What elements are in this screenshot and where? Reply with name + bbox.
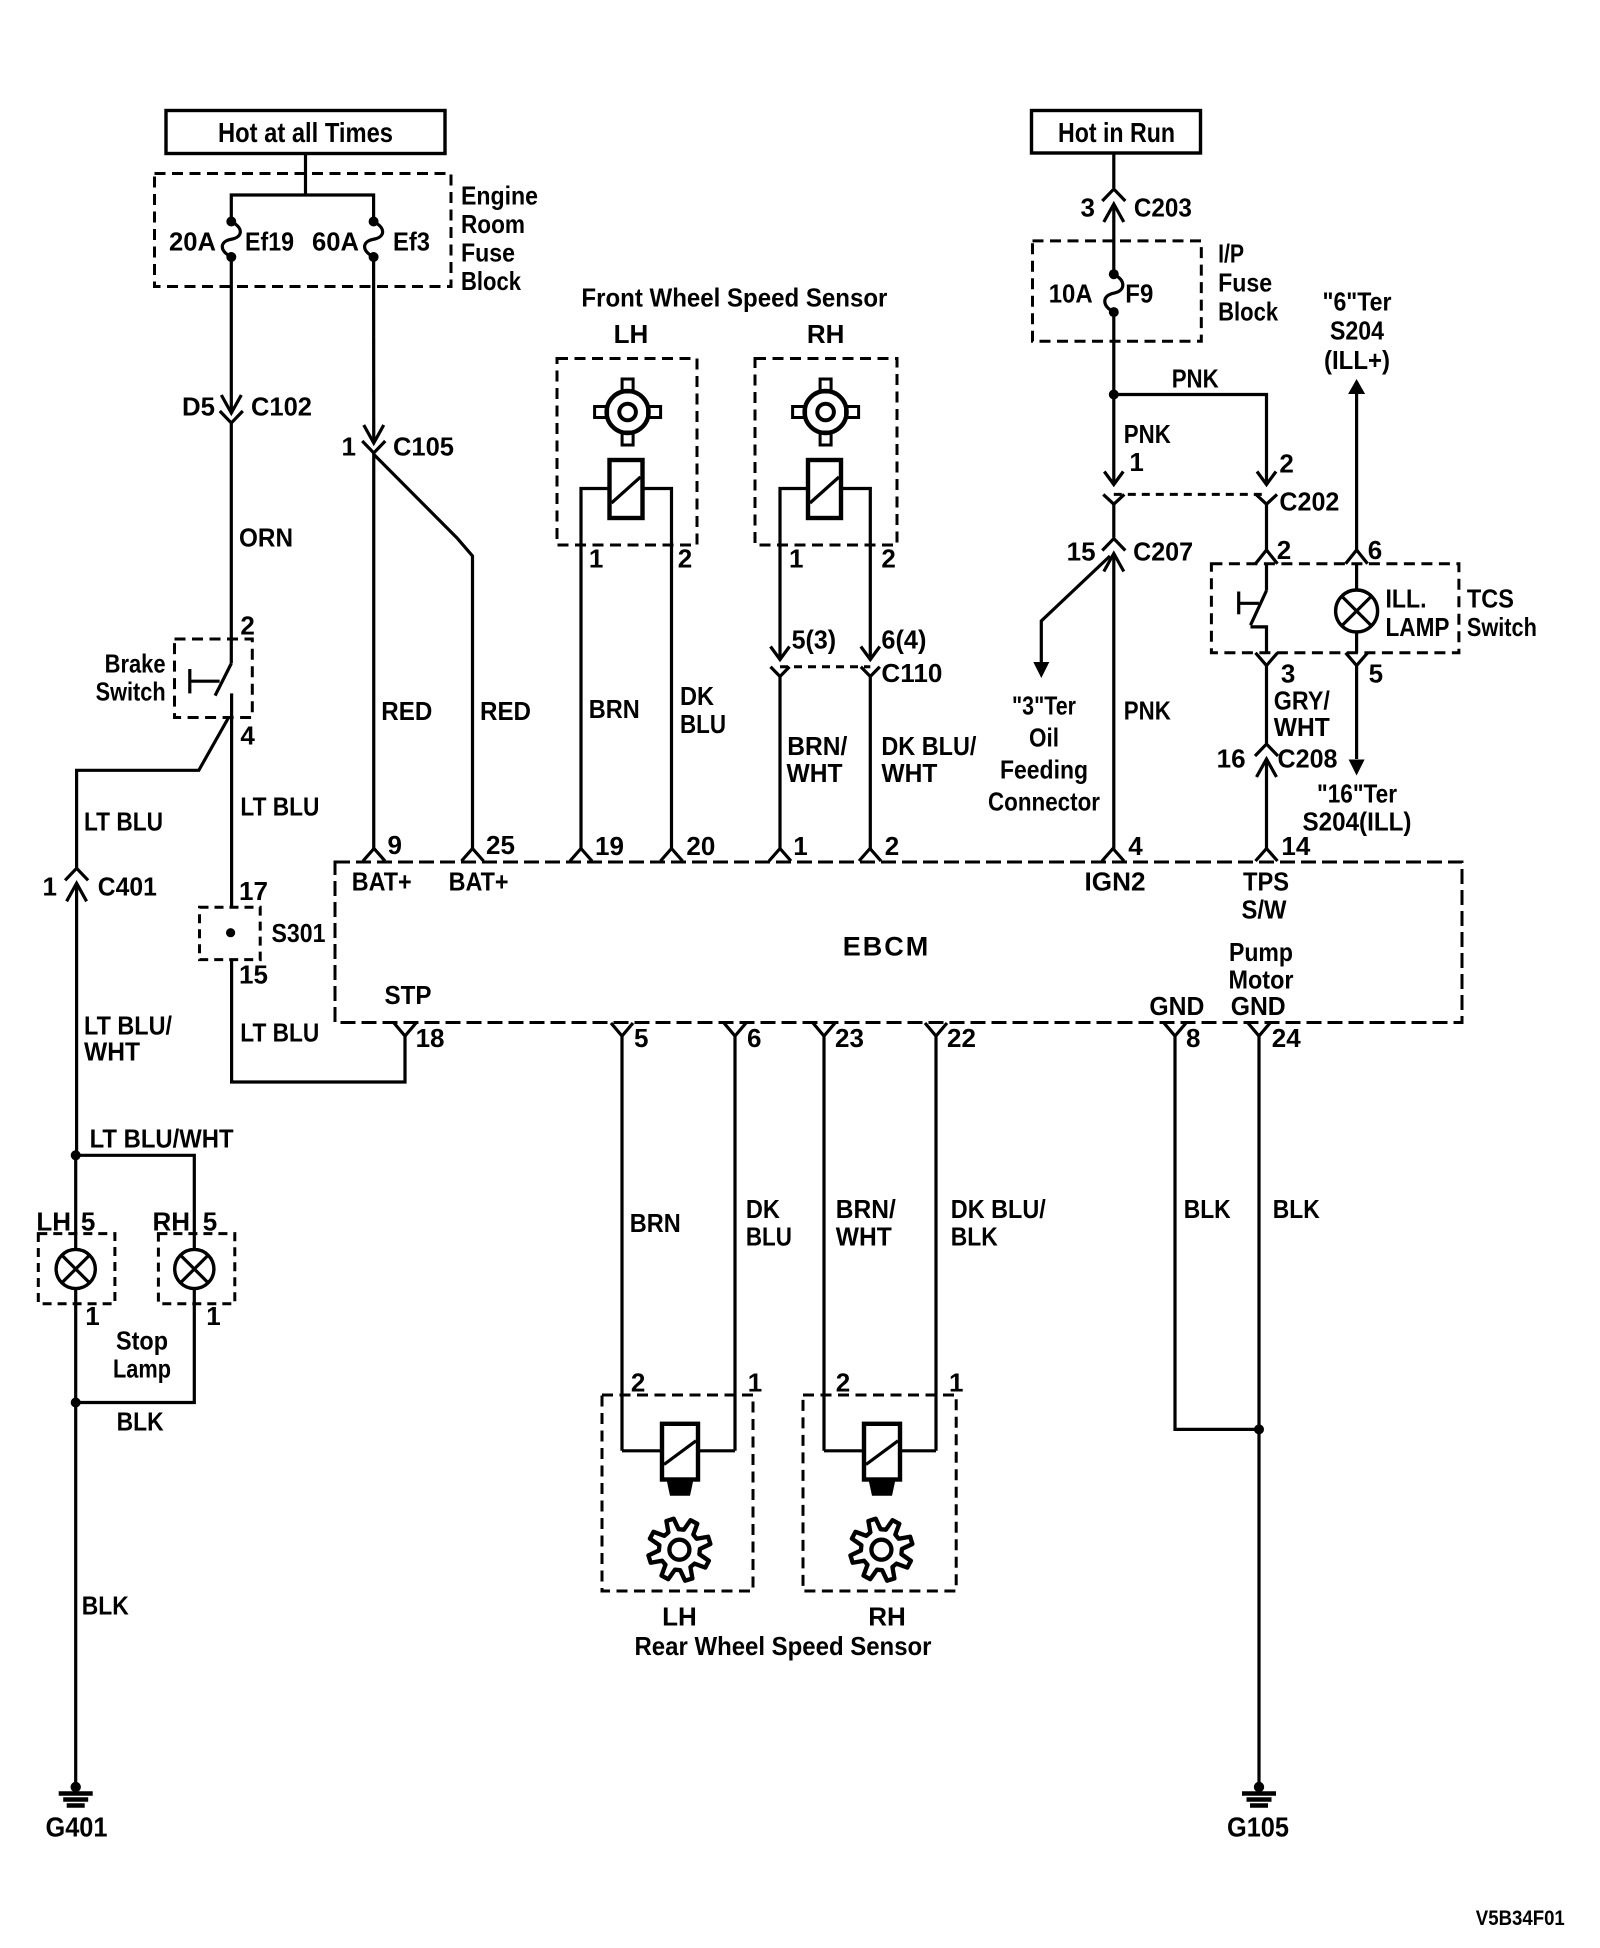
svg-text:5: 5 bbox=[1369, 658, 1383, 688]
svg-text:ILL.: ILL. bbox=[1386, 583, 1427, 613]
junction PNK bbox=[1109, 390, 1119, 400]
svg-text:1: 1 bbox=[793, 831, 807, 861]
svg-text:2: 2 bbox=[1279, 448, 1293, 478]
svg-text:Hot in Run: Hot in Run bbox=[1058, 117, 1175, 148]
svg-text:DK: DK bbox=[680, 681, 714, 711]
svg-text:Lamp: Lamp bbox=[113, 1353, 171, 1383]
svg-text:Room: Room bbox=[461, 209, 525, 239]
svg-text:19: 19 bbox=[595, 831, 624, 861]
svg-text:Fuse: Fuse bbox=[1218, 267, 1272, 297]
svg-text:2: 2 bbox=[678, 543, 692, 573]
svg-text:Block: Block bbox=[1218, 296, 1278, 326]
wire feed branch inside fuse block bbox=[231, 195, 373, 222]
svg-text:BRN/: BRN/ bbox=[787, 731, 847, 761]
svg-text:WHT: WHT bbox=[1274, 712, 1330, 742]
svg-text:3: 3 bbox=[1281, 658, 1295, 688]
svg-text:TPS: TPS bbox=[1243, 867, 1289, 897]
wire PNK from fuse F9 bbox=[1112, 312, 1115, 394]
connector C207 pin 15 bbox=[1067, 536, 1193, 571]
svg-text:1: 1 bbox=[949, 1367, 963, 1397]
EBCM pin 22 bbox=[925, 1023, 976, 1053]
wire ORN C102 to brake switch bbox=[231, 423, 293, 664]
svg-text:6: 6 bbox=[1368, 535, 1382, 565]
svg-text:C102: C102 bbox=[251, 391, 312, 421]
svg-text:4: 4 bbox=[240, 720, 255, 750]
wire stop lamp RH to junction bbox=[76, 1289, 195, 1403]
EBCM pin 18 STP bbox=[394, 1023, 445, 1053]
EBCM pin 5 bbox=[611, 1023, 648, 1053]
fuse Ef19 20A bbox=[169, 217, 359, 263]
svg-text:6: 6 bbox=[747, 1023, 761, 1053]
svg-text:17: 17 bbox=[239, 876, 268, 906]
ILL. LAMP bulb bbox=[1336, 564, 1450, 653]
svg-text:WHT: WHT bbox=[881, 758, 937, 788]
front wheel speed sensor RH (dashed box) bbox=[755, 359, 897, 546]
svg-text:LH: LH bbox=[662, 1602, 697, 1632]
power tag "Hot in Run" bbox=[1032, 111, 1201, 154]
svg-text:LT BLU: LT BLU bbox=[240, 791, 319, 821]
svg-text:D5: D5 bbox=[182, 391, 215, 421]
power tag "Hot at all Times" bbox=[166, 111, 445, 154]
svg-text:(ILL+): (ILL+) bbox=[1324, 345, 1390, 375]
svg-text:BLK: BLK bbox=[82, 1590, 129, 1620]
svg-text:BLK: BLK bbox=[1273, 1194, 1320, 1224]
wire C202 to C207 bbox=[1112, 504, 1115, 537]
stop lamp RH bbox=[152, 1206, 234, 1330]
svg-text:LT BLU: LT BLU bbox=[240, 1017, 319, 1047]
svg-text:F9: F9 bbox=[1125, 278, 1153, 308]
wire LT BLU brake switch to S301 bbox=[232, 693, 320, 907]
wire C208 to EBCM pin 14 bbox=[1265, 759, 1268, 849]
label TCS Switch bbox=[1467, 583, 1537, 642]
wire fuse Ef19 to C102 bbox=[230, 257, 233, 413]
EBCM pin 23 bbox=[813, 1023, 864, 1053]
EBCM module (dash-dot box) bbox=[335, 862, 1462, 1023]
wire BRN/WHT C110 to EBCM pin 1 bbox=[780, 677, 847, 849]
svg-text:DK BLU/: DK BLU/ bbox=[881, 731, 976, 761]
svg-text:BLU: BLU bbox=[680, 709, 726, 739]
svg-text:LT BLU: LT BLU bbox=[84, 806, 163, 836]
label "6"Ter S204 (ILL+) bbox=[1323, 286, 1392, 375]
svg-text:1: 1 bbox=[43, 871, 57, 901]
wire DK BLU/WHT C110 to EBCM pin 2 bbox=[870, 677, 976, 849]
label "3"Ter Oil Feeding Connector bbox=[988, 690, 1100, 816]
svg-text:Brake: Brake bbox=[105, 648, 166, 678]
svg-text:"6"Ter: "6"Ter bbox=[1323, 286, 1392, 316]
svg-text:20: 20 bbox=[686, 831, 715, 861]
connector C105 pin 1 bbox=[342, 425, 454, 461]
svg-text:BLU: BLU bbox=[746, 1222, 792, 1252]
brake switch (dashed box) bbox=[96, 639, 253, 718]
svg-text:BLK: BLK bbox=[1184, 1194, 1231, 1224]
svg-text:LT BLU/WHT: LT BLU/WHT bbox=[90, 1123, 234, 1153]
svg-text:EBCM: EBCM bbox=[843, 931, 928, 961]
svg-text:5: 5 bbox=[203, 1206, 217, 1236]
svg-text:Block: Block bbox=[461, 266, 521, 296]
svg-text:V5B34F01: V5B34F01 bbox=[1476, 1907, 1565, 1930]
svg-text:WHT: WHT bbox=[787, 758, 843, 788]
wire RED diagonal to EBCM pin 25 bbox=[374, 455, 531, 849]
svg-text:Engine: Engine bbox=[461, 180, 538, 210]
svg-text:3: 3 bbox=[1081, 192, 1095, 222]
rear wheel speed sensor LH (dashed box) bbox=[602, 1395, 753, 1591]
wire RH sensor pin 1 to C110 bbox=[778, 545, 781, 660]
svg-text:2: 2 bbox=[631, 1367, 645, 1397]
wire tap from pin 4 to left branch bbox=[77, 718, 229, 869]
wire BLK EBCM pin 8 to junction bbox=[1175, 1036, 1259, 1429]
wire PNK to C202 pin 1 bbox=[1114, 395, 1171, 485]
svg-text:8: 8 bbox=[1186, 1023, 1200, 1053]
wire DK BLU/BLK EBCM pin 22 to rear RH sensor bbox=[936, 1036, 1046, 1451]
svg-text:1: 1 bbox=[589, 543, 603, 573]
wire branch to oil feeding connector bbox=[1041, 556, 1110, 662]
svg-text:60A: 60A bbox=[312, 226, 359, 256]
svg-text:G401: G401 bbox=[46, 1812, 108, 1843]
wire Hot in Run to C203 bbox=[1112, 153, 1115, 188]
svg-text:PNK: PNK bbox=[1124, 695, 1171, 725]
svg-text:C203: C203 bbox=[1134, 192, 1192, 222]
wire LT BLU S301 to EBCM pin 18 STP bbox=[232, 960, 405, 1082]
ground G401 bbox=[46, 1782, 108, 1843]
svg-text:GND: GND bbox=[1231, 991, 1286, 1021]
connector C110 bbox=[771, 647, 943, 688]
EBCM pin 19 bbox=[570, 831, 624, 861]
svg-text:1: 1 bbox=[342, 431, 356, 461]
svg-text:16: 16 bbox=[1217, 743, 1246, 773]
svg-text:IGN2: IGN2 bbox=[1085, 867, 1146, 897]
svg-text:BAT+: BAT+ bbox=[449, 867, 509, 897]
wire from Hot at all Times into fuse block bbox=[304, 154, 307, 196]
svg-text:WHT: WHT bbox=[836, 1222, 892, 1252]
wire BLK to G401 bbox=[76, 1403, 129, 1785]
svg-text:WHT: WHT bbox=[84, 1036, 140, 1066]
EBCM pin 24 Pump Motor GND bbox=[1248, 1023, 1301, 1053]
svg-text:6(4): 6(4) bbox=[881, 624, 926, 654]
ground G105 bbox=[1227, 1782, 1289, 1843]
svg-text:25: 25 bbox=[486, 830, 515, 860]
svg-text:S204(ILL): S204(ILL) bbox=[1303, 806, 1412, 836]
fuse F9 10A bbox=[1049, 269, 1154, 317]
svg-text:Connector: Connector bbox=[988, 786, 1100, 816]
svg-text:C202: C202 bbox=[1279, 486, 1339, 516]
svg-text:RH: RH bbox=[152, 1206, 190, 1236]
EBCM pin 4 IGN2 bbox=[1085, 831, 1146, 897]
svg-text:Fuse: Fuse bbox=[461, 237, 515, 267]
svg-text:1: 1 bbox=[85, 1301, 99, 1331]
svg-text:S204: S204 bbox=[1330, 315, 1384, 345]
svg-text:C207: C207 bbox=[1133, 536, 1193, 566]
svg-text:22: 22 bbox=[947, 1023, 976, 1053]
svg-text:1: 1 bbox=[1129, 447, 1143, 477]
wire BRN LH sensor to EBCM pin 19 bbox=[581, 545, 640, 849]
wire C202 to TCS switch pin 2 bbox=[1265, 504, 1268, 550]
svg-text:LH: LH bbox=[36, 1206, 71, 1236]
wire fuse Ef3 to C105 bbox=[372, 257, 375, 443]
svg-text:PNK: PNK bbox=[1172, 363, 1219, 393]
wire BLK EBCM pin 24 to G105 bbox=[1259, 1036, 1320, 1784]
svg-text:2: 2 bbox=[885, 831, 899, 861]
svg-text:BLK: BLK bbox=[951, 1222, 998, 1252]
EBCM pin 25 BAT+ bbox=[449, 830, 515, 897]
svg-text:Ef19: Ef19 bbox=[245, 226, 294, 256]
svg-text:DK BLU/: DK BLU/ bbox=[951, 1194, 1046, 1224]
wire stop lamp LH to junction bbox=[74, 1289, 77, 1403]
svg-text:S301: S301 bbox=[272, 918, 326, 948]
svg-text:Switch: Switch bbox=[96, 676, 166, 706]
TCS Switch (dashed box) bbox=[1211, 564, 1459, 653]
I/P Fuse Block (dashed) bbox=[1033, 241, 1202, 341]
svg-text:BRN/: BRN/ bbox=[836, 1194, 896, 1224]
svg-text:Front Wheel Speed Sensor: Front Wheel Speed Sensor bbox=[581, 282, 887, 312]
svg-text:RED: RED bbox=[480, 696, 531, 726]
front wheel speed sensor LH (dashed box) bbox=[557, 359, 697, 546]
wire TCS pin 6 to S204 ILL+ arrow bbox=[1355, 394, 1358, 550]
svg-text:G105: G105 bbox=[1227, 1812, 1289, 1843]
svg-text:23: 23 bbox=[835, 1023, 864, 1053]
label Engine Room Fuse Block bbox=[461, 180, 538, 296]
Engine Room Fuse Block (dashed) bbox=[155, 174, 452, 287]
arrow to "6"Ter S204 (ILL+) bbox=[1348, 379, 1365, 394]
svg-text:24: 24 bbox=[1272, 1023, 1301, 1053]
wire PNK to C202 pin 2 bbox=[1114, 363, 1267, 484]
svg-text:RH: RH bbox=[868, 1602, 906, 1632]
svg-text:GRY/: GRY/ bbox=[1274, 685, 1330, 715]
wire to stop lamp LH bbox=[74, 1155, 77, 1249]
svg-text:Ef3: Ef3 bbox=[393, 226, 430, 256]
brake switch contacts bbox=[190, 664, 232, 696]
wire DK BLU EBCM pin 6 to rear LH sensor bbox=[735, 1036, 792, 1451]
connector C202 bbox=[1103, 472, 1339, 517]
svg-text:1: 1 bbox=[789, 543, 803, 573]
svg-text:C401: C401 bbox=[98, 871, 157, 901]
arrow to "3"Ter Oil Feeding Connector bbox=[1033, 662, 1049, 678]
svg-text:10A: 10A bbox=[1049, 278, 1093, 308]
junction BLK grounds bbox=[1254, 1424, 1264, 1434]
junction BLK bbox=[71, 1398, 164, 1437]
wire BRN/WHT EBCM pin 23 to rear RH sensor bbox=[824, 1036, 896, 1451]
svg-text:LH: LH bbox=[614, 319, 649, 349]
svg-text:C110: C110 bbox=[881, 658, 942, 688]
svg-text:Oil: Oil bbox=[1029, 722, 1059, 752]
svg-text:GND: GND bbox=[1149, 991, 1204, 1021]
svg-text:BLK: BLK bbox=[117, 1406, 164, 1436]
svg-text:STP: STP bbox=[385, 980, 432, 1010]
EBCM pin 9 BAT+ bbox=[352, 830, 412, 897]
svg-text:5(3): 5(3) bbox=[792, 624, 837, 654]
svg-text:2: 2 bbox=[1277, 535, 1291, 565]
arrow to "16"Ter S204(ILL) bbox=[1349, 760, 1365, 776]
wire RED to EBCM pin 9 bbox=[374, 453, 433, 849]
svg-text:Feeding: Feeding bbox=[1000, 754, 1088, 784]
connector C208 pin 16 bbox=[1217, 743, 1338, 777]
svg-text:1: 1 bbox=[748, 1367, 762, 1397]
svg-text:20A: 20A bbox=[169, 226, 216, 256]
TCS pin 3 chevron bbox=[1256, 653, 1296, 689]
EBCM pin 14 TPS S/W bbox=[1242, 831, 1311, 925]
svg-text:C105: C105 bbox=[393, 431, 454, 461]
svg-text:BRN: BRN bbox=[589, 694, 640, 724]
svg-text:DK: DK bbox=[746, 1194, 780, 1224]
svg-text:4: 4 bbox=[1128, 831, 1143, 861]
TCS switch contacts bbox=[1239, 564, 1267, 653]
svg-text:Stop: Stop bbox=[116, 1325, 168, 1355]
EBCM pin 20 bbox=[661, 831, 716, 861]
svg-text:TCS: TCS bbox=[1467, 583, 1514, 613]
svg-text:PNK: PNK bbox=[1124, 419, 1171, 449]
label I/P Fuse Block bbox=[1218, 238, 1278, 326]
splice S301 bbox=[200, 876, 326, 990]
label "16"Ter S204(ILL) bbox=[1303, 778, 1412, 836]
wire RH sensor pin 2 to C110 bbox=[869, 545, 872, 660]
svg-text:I/P: I/P bbox=[1218, 238, 1244, 268]
svg-text:BRN: BRN bbox=[630, 1208, 681, 1238]
svg-text:BAT+: BAT+ bbox=[352, 867, 412, 897]
fuse Ef3 60A bbox=[365, 217, 430, 263]
wire LT BLU/WHT C401 to stop lamps bbox=[77, 883, 172, 1155]
TCS pin 6 chevron bbox=[1346, 550, 1368, 564]
connector C401 pin 1 bbox=[43, 868, 157, 901]
connector C203 pin 3 bbox=[1081, 189, 1192, 222]
wire TCS pin 5 to S204 ILL arrow bbox=[1355, 666, 1358, 760]
label Stop Lamp bbox=[113, 1325, 171, 1383]
EBCM pin 8 GND bbox=[1164, 1023, 1200, 1053]
svg-text:S/W: S/W bbox=[1242, 895, 1287, 925]
svg-text:2: 2 bbox=[240, 610, 254, 640]
svg-text:RED: RED bbox=[381, 696, 432, 726]
svg-text:1: 1 bbox=[206, 1301, 220, 1331]
svg-text:Rear Wheel Speed Sensor: Rear Wheel Speed Sensor bbox=[635, 1631, 932, 1661]
EBCM pin 2 bbox=[859, 831, 899, 861]
svg-text:5: 5 bbox=[81, 1206, 95, 1236]
svg-text:"16"Ter: "16"Ter bbox=[1317, 778, 1397, 808]
wire BRN EBCM pin 5 to rear LH sensor bbox=[622, 1036, 681, 1451]
svg-text:RH: RH bbox=[807, 319, 845, 349]
svg-text:Switch: Switch bbox=[1467, 612, 1537, 642]
wire C203 to I/P fuse bbox=[1112, 204, 1115, 274]
svg-text:5: 5 bbox=[634, 1023, 648, 1053]
stop lamp LH bbox=[36, 1206, 115, 1330]
svg-text:ORN: ORN bbox=[239, 522, 293, 552]
svg-text:LAMP: LAMP bbox=[1386, 612, 1450, 642]
rear wheel speed sensor RH (dashed box) bbox=[803, 1395, 956, 1591]
svg-text:15: 15 bbox=[1067, 536, 1096, 566]
junction LT BLU/WHT bbox=[71, 1123, 234, 1160]
wire to stop lamp RH bbox=[76, 1155, 195, 1249]
svg-text:"3"Ter: "3"Ter bbox=[1012, 690, 1076, 720]
TCS pin 5 chevron bbox=[1346, 653, 1383, 689]
svg-text:Pump: Pump bbox=[1229, 937, 1293, 967]
wire PNK C207 to EBCM pin 4 bbox=[1114, 554, 1171, 849]
label Pump Motor GND bbox=[1229, 937, 1294, 1021]
EBCM pin 1 bbox=[769, 831, 808, 861]
connector C102 pin D5 bbox=[182, 391, 312, 423]
TCS pin 2 chevron bbox=[1256, 550, 1278, 564]
wire DK BLU LH sensor to EBCM pin 20 bbox=[672, 545, 727, 849]
svg-text:Hot at all Times: Hot at all Times bbox=[218, 117, 393, 148]
svg-text:2: 2 bbox=[881, 543, 895, 573]
svg-text:C208: C208 bbox=[1278, 743, 1338, 773]
svg-text:18: 18 bbox=[416, 1023, 445, 1053]
svg-text:9: 9 bbox=[388, 830, 402, 860]
EBCM pin 6 bbox=[724, 1023, 761, 1053]
svg-text:2: 2 bbox=[836, 1367, 850, 1397]
wire GRY/WHT TCS pin 3 to C208 bbox=[1267, 666, 1330, 744]
svg-text:15: 15 bbox=[239, 959, 268, 989]
